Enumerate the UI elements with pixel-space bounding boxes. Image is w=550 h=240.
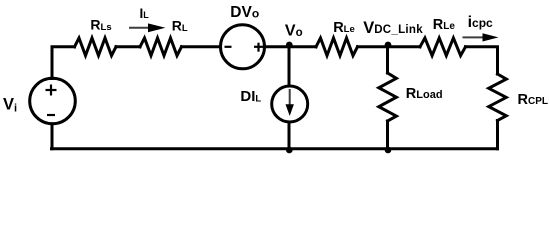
resistor R_Le (second): [420, 38, 466, 56]
wire DIL to bottom: [288, 122, 291, 149]
bottom junction dot under R_Load: [385, 147, 392, 154]
source DIL circle: [272, 86, 308, 122]
source DVo circle: [221, 25, 265, 69]
wire R_L to DVo source: [182, 45, 221, 48]
minus sign inside DVo: [225, 46, 232, 48]
arrow icpc (current arrow): [463, 33, 499, 41]
wire top-left corner to R_Ls: [52, 47, 75, 79]
wire R_Le2 to top-right corner down to R_CPL: [466, 47, 498, 74]
wire R_Le to R_Le2 across node V_DC_Link: [358, 45, 421, 48]
wire node Vo down to DIL source: [288, 47, 291, 86]
resistor R_Ls: [75, 38, 117, 56]
minus sign inside Vi: [47, 114, 55, 116]
wire R_Load to bottom: [386, 121, 389, 149]
node Vo junction dot: [286, 42, 293, 49]
svg-text:RLoad: RLoad: [406, 86, 443, 102]
bottom wire: [52, 147, 498, 150]
node V_DC_Link junction dot: [385, 42, 392, 49]
plus sign inside DVo: [254, 43, 263, 52]
resistor R_Load: [379, 73, 397, 121]
resistor R_L: [140, 38, 182, 56]
resistor R_CPL: [489, 74, 507, 121]
wire node V_DC_Link down to R_Load: [386, 47, 389, 73]
svg-text:DVo: DVo: [230, 4, 259, 21]
bottom junction dot under DIL: [286, 147, 293, 154]
wire DVo to node Vo: [265, 45, 317, 48]
arrow inside DIL (downward): [286, 89, 294, 116]
resistor R_Le (first): [316, 38, 358, 56]
wire R_CPL to bottom wire: [496, 121, 499, 149]
svg-text:icpc: icpc: [468, 14, 493, 31]
arrow IL (current arrow): [129, 23, 165, 32]
wire R_Ls to R_L: [116, 45, 140, 48]
wire Vi bottom: [51, 124, 54, 149]
source Vi circle: [30, 78, 76, 124]
plus sign inside Vi: [46, 85, 57, 96]
